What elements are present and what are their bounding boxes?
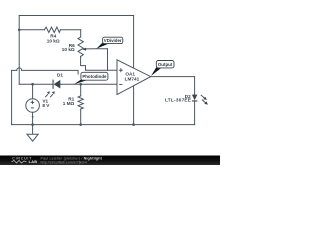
svg-text:Photodiode: Photodiode (82, 74, 107, 79)
svg-text:http://circuitlab.com/c/7jkdr4: http://circuitlab.com/c/7jkdr4 (41, 160, 87, 164)
svg-text:LM741: LM741 (125, 76, 140, 81)
svg-text:VDivider: VDivider (104, 38, 122, 43)
svg-text:LTL-307EE: LTL-307EE (165, 97, 191, 102)
svg-text:10 kΩ: 10 kΩ (62, 47, 75, 52)
svg-text:Output: Output (158, 62, 173, 67)
svg-text:D1: D1 (57, 73, 63, 78)
svg-text:8 V: 8 V (42, 103, 50, 108)
svg-text:10 kΩ: 10 kΩ (47, 38, 60, 43)
svg-text:1 MΩ: 1 MΩ (63, 101, 75, 106)
svg-text:LAB: LAB (29, 160, 38, 164)
